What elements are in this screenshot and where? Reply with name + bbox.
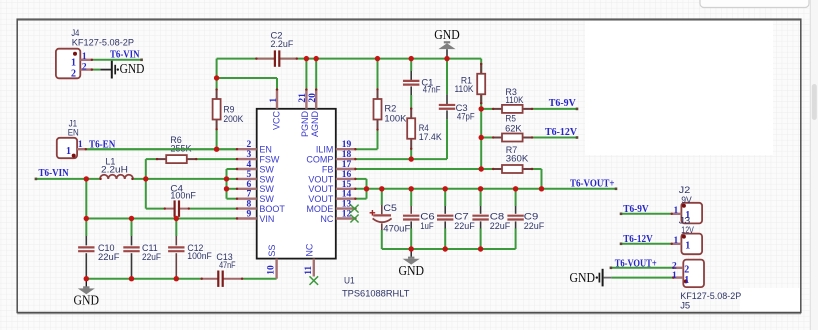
connector J2 box xyxy=(681,203,702,224)
junction rail AGND xyxy=(314,56,319,61)
svg-text:9: 9 xyxy=(247,210,252,220)
svg-text:SW: SW xyxy=(259,164,274,174)
svg-text:C7: C7 xyxy=(454,211,469,221)
svg-text:22uF: 22uF xyxy=(142,252,161,262)
wire VIN row xyxy=(86,179,236,219)
capacitor C1 xyxy=(403,71,419,95)
svg-text:GND: GND xyxy=(398,263,424,278)
junction bus C5 xyxy=(379,186,384,191)
capacitor C8 xyxy=(472,206,488,229)
connector J3 box xyxy=(681,234,702,255)
svg-text:200K: 200K xyxy=(223,114,243,124)
svg-text:T6-VIN: T6-VIN xyxy=(110,49,140,60)
svg-text:110K: 110K xyxy=(505,95,523,105)
svg-text:J2: J2 xyxy=(679,185,690,195)
wire R7 to bus drop xyxy=(533,169,542,189)
label C1 47nF xyxy=(421,78,441,95)
svg-text:SW: SW xyxy=(259,194,274,204)
wire input cap columns xyxy=(86,219,176,237)
svg-text:U1: U1 xyxy=(344,276,355,286)
node T6-VOUT+ at bus xyxy=(570,178,617,190)
svg-text:T6-EN: T6-EN xyxy=(89,139,116,150)
label C11 22uF xyxy=(142,243,161,262)
wire EN net over label xyxy=(86,148,236,150)
wire T6-12V at J3 xyxy=(621,243,671,245)
svg-text:13: 13 xyxy=(342,200,352,210)
svg-text:1uF: 1uF xyxy=(420,221,434,231)
J2 pin stub xyxy=(671,213,682,215)
wire FB row xyxy=(356,168,493,170)
svg-text:18: 18 xyxy=(342,150,352,160)
wire FSW net xyxy=(146,159,237,179)
node T6-12V at R5 xyxy=(545,127,578,139)
label J5 KF127-5.08-2P xyxy=(680,291,741,310)
junction R3 divider xyxy=(479,106,484,111)
svg-text:2: 2 xyxy=(247,140,252,150)
junction SW L1 node xyxy=(143,176,148,181)
svg-text:17: 17 xyxy=(342,160,352,170)
wire C3 column xyxy=(446,59,448,160)
wire output bus T6-VOUT+ xyxy=(356,188,616,190)
resistor R7 xyxy=(492,165,533,173)
resistor R3 xyxy=(492,105,533,113)
wire GND at J5 xyxy=(611,277,672,279)
node T6-EN xyxy=(89,139,116,150)
junction bus C8 xyxy=(478,186,483,191)
svg-text:VIN: VIN xyxy=(259,214,274,224)
wire rail to R9 and VCC branch xyxy=(217,59,277,89)
capacitor C3 xyxy=(439,95,455,120)
junction GND C10 xyxy=(84,276,89,281)
svg-text:47pF: 47pF xyxy=(457,111,475,121)
svg-text:J4: J4 xyxy=(71,28,79,38)
U1 no-connect X pin 11 xyxy=(310,276,319,285)
junction SW bus pin5 xyxy=(224,176,229,181)
wire T6-VIN / SW node xyxy=(36,169,237,199)
svg-text:22uF: 22uF xyxy=(490,221,511,231)
svg-text:100K: 100K xyxy=(384,114,406,124)
U1 right pin names xyxy=(306,145,333,224)
svg-text:FB: FB xyxy=(322,164,334,174)
svg-text:1: 1 xyxy=(82,52,87,62)
label TPS61088RHLT xyxy=(342,289,410,299)
svg-text:EN: EN xyxy=(259,145,272,155)
wire right ground row xyxy=(382,229,516,250)
svg-text:1: 1 xyxy=(673,206,678,216)
label C13 47nF xyxy=(216,252,236,270)
svg-text:T6-VOUT+: T6-VOUT+ xyxy=(615,258,657,269)
svg-text:R5: R5 xyxy=(505,114,516,124)
U1 no-connect X pin 13 xyxy=(350,205,358,213)
svg-text:2.2uH: 2.2uH xyxy=(101,165,128,175)
svg-text:VOUT: VOUT xyxy=(308,184,334,194)
junction bus R7 xyxy=(539,186,544,191)
svg-text:VCC: VCC xyxy=(272,111,282,131)
wire C1 to R4 xyxy=(410,95,412,108)
svg-text:R2: R2 xyxy=(384,104,396,114)
wire R1 bottom divider chain xyxy=(480,94,482,169)
svg-text:NC: NC xyxy=(320,214,333,224)
node T6-VIN at J4 xyxy=(110,49,143,61)
svg-text:SW: SW xyxy=(259,184,274,194)
label R4 17.4K xyxy=(419,123,442,142)
junction VIN C11 xyxy=(129,216,134,221)
U1 left pin names xyxy=(259,145,285,224)
svg-text:2: 2 xyxy=(71,69,76,80)
svg-text:22uF: 22uF xyxy=(98,252,120,262)
svg-text:J5: J5 xyxy=(680,301,690,311)
svg-text:1: 1 xyxy=(71,57,76,68)
node T6-9V at J2 xyxy=(620,204,649,215)
svg-text:GND: GND xyxy=(74,293,100,308)
junction GND C7 xyxy=(443,246,448,251)
J5 pin stubs xyxy=(672,267,683,279)
label R3 110K xyxy=(505,87,523,105)
svg-text:EN: EN xyxy=(68,127,79,137)
junction bus C9 xyxy=(513,186,518,191)
svg-text:1: 1 xyxy=(673,236,678,246)
label C6 1uF xyxy=(420,211,435,231)
ground flag at C10 xyxy=(74,279,100,308)
svg-text:C6: C6 xyxy=(420,211,435,221)
svg-text:T6-VIN: T6-VIN xyxy=(39,168,70,179)
svg-text:GND: GND xyxy=(434,27,460,42)
svg-text:9V: 9V xyxy=(681,195,692,205)
U1 no-connect X pin 12 xyxy=(350,215,358,223)
junction R5 divider xyxy=(479,135,484,140)
wire R3 row to T6-9V xyxy=(481,108,577,110)
label R2 100K xyxy=(384,104,406,124)
svg-text:T6-VOUT+: T6-VOUT+ xyxy=(570,178,615,189)
junction VIN C12 xyxy=(174,216,179,221)
node T6-VOUT+ at J5 xyxy=(610,258,657,269)
wire rail-21-20 stubs xyxy=(306,59,316,89)
node T6-12V at J3 xyxy=(620,234,653,245)
svg-text:R9: R9 xyxy=(223,104,234,114)
capacitor C12 xyxy=(168,236,184,279)
resistor R1 xyxy=(477,63,485,105)
label R9 200K xyxy=(223,104,243,124)
svg-text:47nF: 47nF xyxy=(219,260,236,270)
J4 pin stubs xyxy=(80,59,93,71)
svg-text:PGND: PGND xyxy=(300,111,310,138)
capacitor C7 xyxy=(437,206,453,229)
svg-text:FSW: FSW xyxy=(259,155,280,165)
svg-text:14: 14 xyxy=(342,190,352,200)
right scrollbar xyxy=(811,0,818,330)
J1 pin stub xyxy=(77,148,87,150)
top-right floating panel xyxy=(700,0,809,8)
U1 right pin numbers xyxy=(342,140,352,219)
svg-text:10: 10 xyxy=(267,265,277,275)
svg-text:AGND: AGND xyxy=(310,111,320,138)
svg-text:SS: SS xyxy=(267,245,277,257)
svg-text:20: 20 xyxy=(308,93,318,103)
U1 top pin numbers 1 21 20 xyxy=(269,93,318,103)
svg-text:22uF: 22uF xyxy=(524,221,545,231)
wire R2 to ILIM xyxy=(356,130,378,149)
J5 pin numbers xyxy=(672,261,689,286)
svg-text:ILIM: ILIM xyxy=(316,145,334,155)
wire rail to R2 xyxy=(377,59,379,89)
junction VIN C10 xyxy=(84,216,89,221)
svg-text:2.2uF: 2.2uF xyxy=(271,39,294,49)
label J1 EN xyxy=(68,119,79,138)
svg-text:12: 12 xyxy=(342,210,352,220)
svg-text:NC: NC xyxy=(304,243,314,256)
svg-text:COMP: COMP xyxy=(306,155,333,165)
node T6-VIN at L1 xyxy=(35,168,69,180)
svg-text:470uF: 470uF xyxy=(383,224,411,234)
capacitor C13 xyxy=(201,271,244,287)
inductor L1 xyxy=(99,175,133,180)
capacitor C6 xyxy=(403,206,419,229)
connector J1 box xyxy=(57,138,77,158)
J3 pin numbers xyxy=(673,236,690,251)
U1 bottom pin stubs xyxy=(277,259,314,279)
svg-text:21: 21 xyxy=(298,93,308,103)
op-amp U1 TPS61088RHLT body xyxy=(257,109,336,259)
svg-text:SW: SW xyxy=(259,174,274,184)
junction T6-VIN C10 xyxy=(84,176,89,181)
wire R5 row to T6-12V xyxy=(481,137,577,139)
label C9 22uF xyxy=(524,211,545,231)
wire output cap columns xyxy=(382,189,516,206)
ground flag at C6 xyxy=(398,249,424,278)
label C2 2.2uF xyxy=(271,31,294,50)
junction GND C8 xyxy=(478,246,483,251)
svg-text:2: 2 xyxy=(684,264,689,275)
junction rail R9 xyxy=(214,75,219,80)
junction FB divider xyxy=(479,166,484,171)
junction bus C6 xyxy=(409,186,414,191)
junction rail C1 xyxy=(409,56,414,61)
svg-text:19: 19 xyxy=(342,140,352,150)
J2 pin numbers xyxy=(673,206,690,221)
ground flag at J5 pin1 xyxy=(570,269,612,287)
svg-text:BOOT: BOOT xyxy=(259,204,285,214)
resistor R5 xyxy=(492,134,533,142)
wire T6-9V at J2 xyxy=(621,213,671,215)
junction rail R2 xyxy=(375,56,380,61)
svg-text:110K: 110K xyxy=(455,84,474,94)
white region top-right inside sheet xyxy=(585,21,773,156)
label C3 47pF xyxy=(456,103,475,121)
label R7 360K xyxy=(506,145,529,164)
svg-text:360K: 360K xyxy=(506,153,529,163)
svg-text:GND: GND xyxy=(120,61,145,76)
svg-text:17.4K: 17.4K xyxy=(419,132,442,142)
svg-text:C8: C8 xyxy=(490,211,505,221)
label C10 22uF xyxy=(98,243,120,262)
svg-text:T6-12V: T6-12V xyxy=(623,234,653,245)
junction rail C3 GND xyxy=(444,56,449,61)
U1 left pin numbers xyxy=(247,140,252,219)
svg-text:11: 11 xyxy=(304,266,314,275)
wire T6-VOUT+ at J5 xyxy=(611,267,673,269)
wire R9 bottom to EN row xyxy=(216,130,218,149)
U1 bottom pin names SS NC xyxy=(267,243,314,256)
svg-text:TPS61088RHLT: TPS61088RHLT xyxy=(342,289,410,299)
ground flag top at C3 xyxy=(434,27,460,59)
connector J5 box xyxy=(683,260,704,288)
junction EN R9 xyxy=(214,147,219,152)
junction bus pin16 xyxy=(364,186,369,191)
svg-text:6: 6 xyxy=(247,180,252,190)
J3 pin stub xyxy=(671,243,682,245)
connector J4 box xyxy=(56,49,80,79)
svg-text:7: 7 xyxy=(247,190,252,200)
svg-text:12V: 12V xyxy=(681,225,694,235)
U1 left pin stubs xyxy=(236,148,257,220)
U1 right pin stubs xyxy=(336,148,357,220)
resistor R6 xyxy=(156,155,198,163)
label C7 22uF xyxy=(454,211,475,231)
label R1 110K xyxy=(455,75,474,94)
svg-text:T6-9V: T6-9V xyxy=(549,98,576,109)
svg-text:C5: C5 xyxy=(383,203,397,213)
resistor R4 xyxy=(407,107,415,150)
wire J4 pin2 to GND xyxy=(93,69,101,71)
label C4 100nF xyxy=(170,184,196,201)
svg-text:15: 15 xyxy=(342,180,352,190)
label R6 255K xyxy=(170,135,191,154)
svg-text:2: 2 xyxy=(672,261,677,271)
label J3 12V xyxy=(679,215,694,235)
J4 pin numbers xyxy=(71,52,87,79)
junction GND C11 xyxy=(129,276,134,281)
U1 top pin stubs xyxy=(276,88,318,108)
svg-text:1: 1 xyxy=(269,98,279,103)
J1 pin numbers xyxy=(66,140,83,157)
svg-text:T6-12V: T6-12V xyxy=(545,127,577,138)
capacitor C4 xyxy=(164,200,190,216)
label R5 62K xyxy=(505,114,521,134)
capacitor C5 polarized xyxy=(370,205,392,230)
capacitor C2 xyxy=(255,50,298,66)
label J4 KF127-5.08-2P xyxy=(71,28,134,48)
svg-text:T6-9V: T6-9V xyxy=(623,204,649,215)
svg-text:100nF: 100nF xyxy=(187,251,212,261)
capacitor C9 xyxy=(507,206,523,229)
label C8 22uF xyxy=(490,211,511,231)
wire J4 pin1 T6-VIN xyxy=(93,59,142,61)
wire VCC top rail xyxy=(217,58,482,60)
svg-text:16: 16 xyxy=(342,170,352,180)
svg-text:100nF: 100nF xyxy=(170,190,196,200)
wire COMP row xyxy=(356,158,447,160)
wire R4 to COMP row xyxy=(410,149,412,159)
svg-text:1: 1 xyxy=(66,146,71,157)
junction GND C12 xyxy=(174,276,179,281)
capacitor C11 xyxy=(123,236,139,279)
svg-text:J3: J3 xyxy=(679,215,690,225)
svg-text:MODE: MODE xyxy=(306,204,333,214)
wire rail to R1 xyxy=(480,59,482,74)
white region bottom-right inside sheet xyxy=(740,288,800,312)
wire rail to C1 xyxy=(410,59,412,71)
label U1 xyxy=(344,276,355,286)
wire EN net xyxy=(86,148,236,150)
junction rail PGND xyxy=(304,56,309,61)
label C5 470uF xyxy=(383,203,411,234)
svg-text:2: 2 xyxy=(82,62,87,72)
svg-text:GND: GND xyxy=(570,270,596,285)
svg-text:1: 1 xyxy=(685,240,690,251)
svg-text:1: 1 xyxy=(672,271,677,281)
junction SW bus pin6 xyxy=(224,186,229,191)
svg-text:62K: 62K xyxy=(505,124,521,134)
svg-text:1: 1 xyxy=(684,275,689,286)
wire VOUT pin14 jog xyxy=(356,189,367,199)
label L1 2.2uH xyxy=(101,157,128,175)
svg-text:3: 3 xyxy=(247,150,252,160)
wire SW node down to C4/BOOT row xyxy=(146,179,237,209)
svg-text:C9: C9 xyxy=(524,211,539,221)
U1 bottom pin numbers 10 11 xyxy=(267,265,314,275)
svg-text:5: 5 xyxy=(247,170,252,180)
svg-text:22uF: 22uF xyxy=(454,221,475,231)
junction GND C6 xyxy=(409,246,414,251)
ground flag at J4 pin2 xyxy=(100,61,144,79)
svg-text:KF127-5.08-2P: KF127-5.08-2P xyxy=(72,37,134,47)
svg-text:VOUT: VOUT xyxy=(308,194,334,204)
U1 top pin names VCC PGND AGND xyxy=(272,111,320,138)
svg-text:8: 8 xyxy=(247,200,252,210)
wire left ground row xyxy=(86,278,276,280)
svg-text:VOUT: VOUT xyxy=(308,174,334,184)
label J2 9V xyxy=(679,185,692,205)
svg-text:47nF: 47nF xyxy=(423,85,441,95)
node T6-9V at R3 xyxy=(549,98,579,110)
wire VOUT pin16 jog xyxy=(356,179,367,189)
resistor R9 xyxy=(213,88,221,130)
junction COMP R4 xyxy=(409,156,414,161)
junction bus C7 xyxy=(443,186,448,191)
capacitor C10 xyxy=(78,236,94,279)
svg-text:4: 4 xyxy=(247,160,252,170)
resistor R2 xyxy=(374,88,382,131)
svg-text:1: 1 xyxy=(78,140,83,150)
label C12 100nF xyxy=(187,243,212,261)
